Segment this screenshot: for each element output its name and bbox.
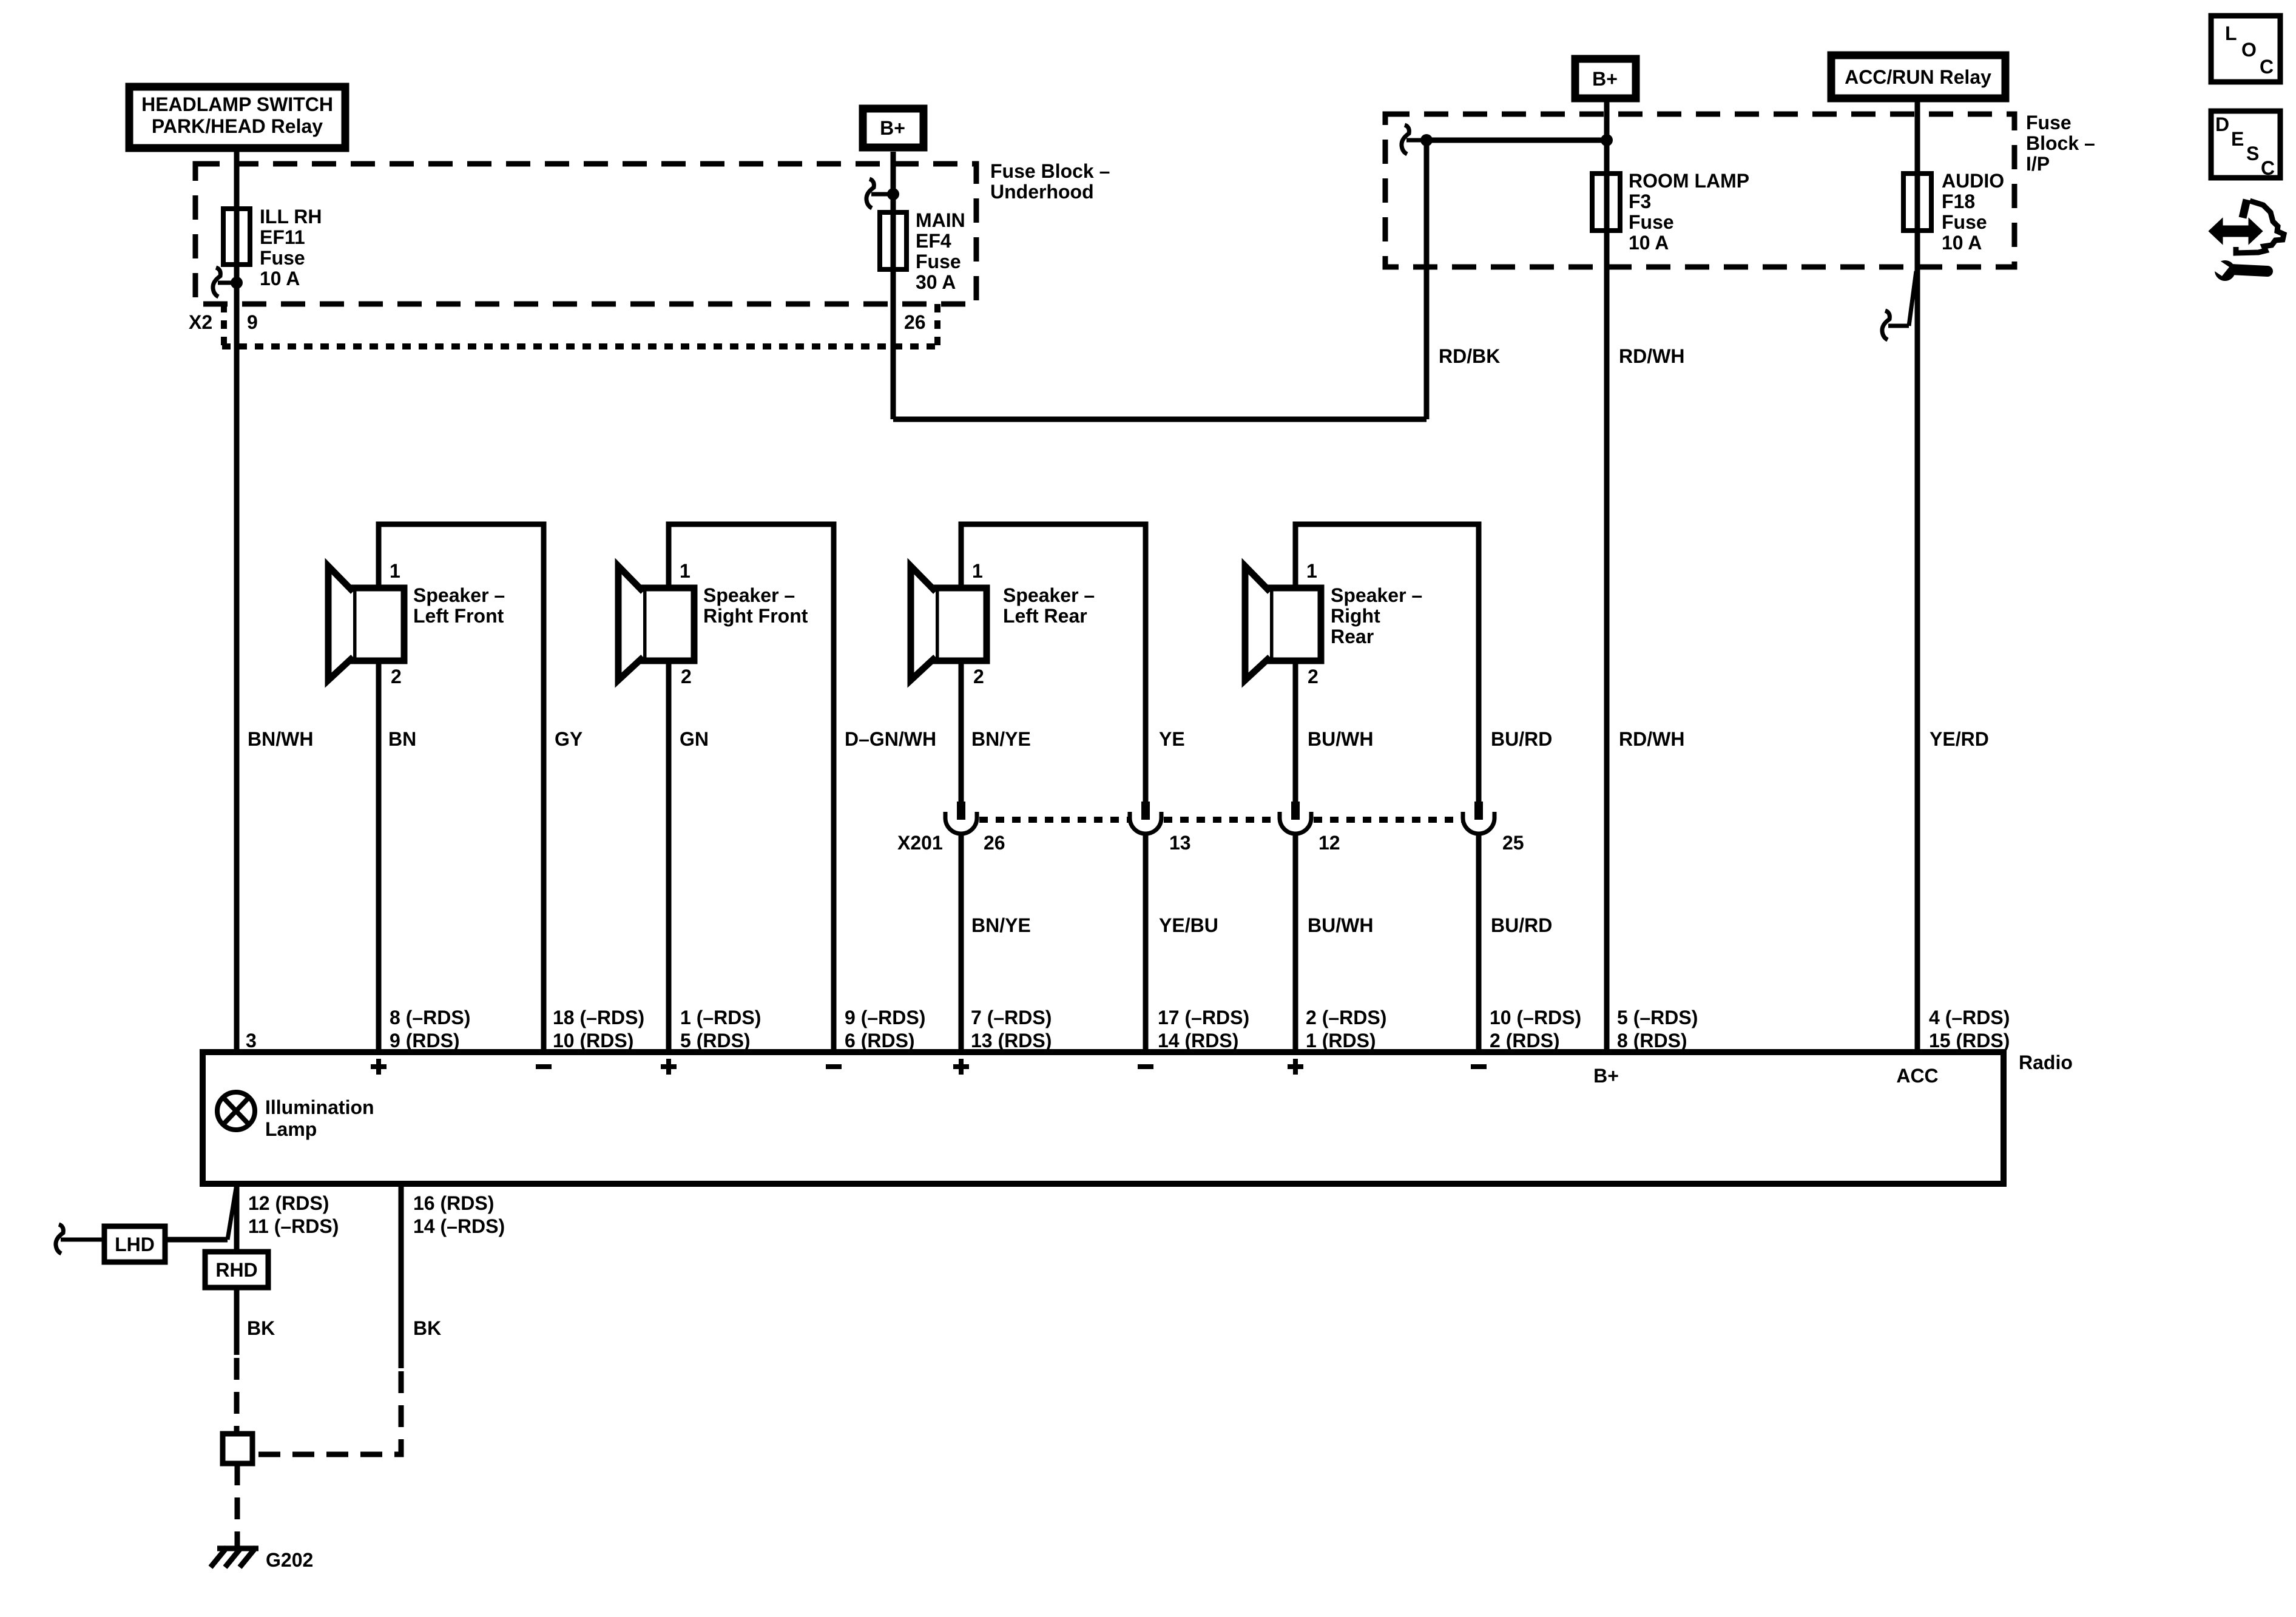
- svg-text:HEADLAMP SWITCH: HEADLAMP SWITCH: [141, 93, 333, 115]
- svg-text:BK: BK: [247, 1317, 275, 1339]
- svg-text:BU/RD: BU/RD: [1491, 728, 1552, 750]
- radio pin 1/5 label: [680, 1007, 761, 1052]
- svg-text:16 (RDS): 16 (RDS): [413, 1192, 494, 1214]
- svg-text:2 (–RDS): 2 (–RDS): [1306, 1007, 1386, 1028]
- svg-text:Lamp: Lamp: [265, 1118, 317, 1140]
- svg-text:B+: B+: [1593, 1065, 1619, 1087]
- wire from ACC/RUN Relay through F18 to radio ACC: [1915, 98, 1920, 1049]
- connector X201 dashed line: [979, 817, 1462, 823]
- junction dot below EF11: [231, 277, 243, 289]
- connector clip at EF4 input: [866, 179, 889, 208]
- wire BU/WH below X201: [1293, 836, 1298, 1049]
- svg-text:26: 26: [984, 832, 1005, 854]
- HEADLAMP SWITCH PARK/HEAD Relay box: [129, 87, 345, 148]
- svg-text:RD/WH: RD/WH: [1619, 728, 1684, 750]
- fuse F3 label: [1629, 170, 1749, 254]
- wire stub to ground: [235, 1537, 240, 1548]
- svg-text:30 A: 30 A: [916, 271, 956, 293]
- radio pin 9/6 label: [845, 1007, 925, 1052]
- svg-text:2: 2: [681, 666, 692, 687]
- B+ power box (middle): [863, 109, 923, 147]
- svg-text:8 (RDS): 8 (RDS): [1617, 1030, 1687, 1052]
- speaker Right Front loop wire: [669, 524, 834, 1049]
- svg-text:12: 12: [1319, 832, 1340, 854]
- radio pin 10/2 label: [1490, 1007, 1581, 1052]
- X201 pin 12 terminal: [1280, 802, 1311, 834]
- svg-text:9 (RDS): 9 (RDS): [390, 1030, 460, 1052]
- svg-text:BN: BN: [388, 728, 416, 750]
- svg-text:4 (–RDS): 4 (–RDS): [1929, 1007, 2010, 1028]
- connector X2 dotted line: [222, 343, 937, 349]
- svg-text:12 (RDS): 12 (RDS): [248, 1192, 329, 1214]
- svg-text:BK: BK: [413, 1317, 441, 1339]
- svg-text:RD/WH: RD/WH: [1619, 345, 1684, 367]
- svg-text:EF11: EF11: [260, 226, 305, 248]
- speaker Left Rear label: [1003, 584, 1095, 627]
- svg-text:GY: GY: [555, 728, 582, 750]
- svg-text:ACC/RUN Relay: ACC/RUN Relay: [1845, 66, 1991, 88]
- svg-text:BU/WH: BU/WH: [1308, 728, 1373, 750]
- svg-text:Speaker –: Speaker –: [703, 584, 795, 606]
- radio terminal + (LF): [371, 1059, 387, 1075]
- svg-text:17 (–RDS): 17 (–RDS): [1158, 1007, 1249, 1028]
- dashed wire below splice: [235, 1463, 240, 1541]
- svg-text:PARK/HEAD Relay: PARK/HEAD Relay: [152, 115, 323, 137]
- svg-text:ILL RH: ILL RH: [260, 206, 322, 228]
- connector X2 right stub: [934, 304, 940, 346]
- RHD box: [205, 1252, 268, 1288]
- radio terminal + (RR): [1288, 1059, 1303, 1075]
- connector clip below F18: [1882, 271, 1916, 340]
- svg-text:Fuse: Fuse: [1629, 211, 1674, 233]
- ACC/RUN Relay box: [1831, 55, 2005, 98]
- svg-text:1: 1: [680, 560, 690, 582]
- svg-text:Speaker –: Speaker –: [1331, 584, 1422, 606]
- X201 pin 13 terminal: [1130, 802, 1161, 834]
- svg-text:11 (–RDS): 11 (–RDS): [248, 1215, 339, 1237]
- wire inside I/P block: [1427, 138, 1607, 143]
- speaker Right Front label: [703, 584, 808, 627]
- svg-text:10 (–RDS): 10 (–RDS): [1490, 1007, 1581, 1028]
- connector clip at EF11 output: [213, 268, 235, 297]
- Fuse Block - Underhood label: [990, 160, 1110, 203]
- svg-text:2 (RDS): 2 (RDS): [1490, 1030, 1560, 1052]
- svg-text:14 (–RDS): 14 (–RDS): [413, 1215, 505, 1237]
- svg-text:Underhood: Underhood: [990, 181, 1094, 203]
- radio pin 17/14 label: [1158, 1007, 1249, 1052]
- svg-text:Radio: Radio: [2019, 1052, 2073, 1073]
- svg-text:YE: YE: [1159, 728, 1185, 750]
- wire from radio pin 16/14 down: [399, 1184, 404, 1368]
- svg-text:9 (–RDS): 9 (–RDS): [845, 1007, 925, 1028]
- svg-text:YE/BU: YE/BU: [1159, 914, 1218, 936]
- repair icon: double arrow, harness outline, wrench: [2209, 200, 2284, 281]
- illumination lamp label: [265, 1096, 374, 1140]
- svg-text:Left Rear: Left Rear: [1003, 605, 1087, 627]
- illumination lamp symbol: [217, 1092, 255, 1130]
- svg-text:B+: B+: [1592, 68, 1618, 90]
- svg-text:AUDIO: AUDIO: [1942, 170, 2004, 192]
- svg-text:18 (–RDS): 18 (–RDS): [553, 1007, 644, 1028]
- wire from B+ right through F3 to radio B+: [1604, 98, 1610, 1049]
- svg-text:B+: B+: [880, 117, 905, 139]
- svg-text:Fuse: Fuse: [1942, 211, 1987, 233]
- svg-text:14 (RDS): 14 (RDS): [1158, 1030, 1238, 1052]
- dashed BK wire (right): [252, 1371, 401, 1454]
- dashed BK wire to splice: [234, 1358, 240, 1434]
- speaker Left Front label: [413, 584, 505, 627]
- radio pin 4/15 label: [1929, 1007, 2010, 1052]
- speaker Right Rear loop wire: [1295, 524, 1479, 802]
- wire from B+ through fuse EF4 down: [891, 152, 896, 419]
- svg-text:10 A: 10 A: [1942, 232, 1982, 254]
- svg-text:BU/RD: BU/RD: [1491, 914, 1552, 936]
- wire from radio pin 12/11 down: [234, 1184, 240, 1252]
- svg-text:EF4: EF4: [916, 230, 951, 252]
- ground symbol G202: [211, 1547, 258, 1567]
- fuse EF11 label: [260, 206, 322, 289]
- LHD box: [104, 1226, 165, 1262]
- speaker Left Front symbol: [328, 566, 404, 680]
- svg-text:1: 1: [972, 560, 983, 582]
- wire from HEADLAMP SWITCH to radio pin 3: [234, 148, 240, 1049]
- svg-text:Illumination: Illumination: [265, 1096, 374, 1118]
- svg-text:F18: F18: [1942, 191, 1975, 212]
- splice square: [223, 1434, 252, 1463]
- svg-text:BN/WH: BN/WH: [248, 728, 313, 750]
- wire BN/YE below X201: [959, 836, 964, 1049]
- svg-text:RHD: RHD: [215, 1259, 257, 1281]
- radio pin 5/8 label: [1617, 1007, 1698, 1052]
- radio pin 16/14 label: [413, 1192, 505, 1237]
- radio pin 7/13 label: [971, 1007, 1052, 1052]
- wire BK below RHD: [234, 1288, 240, 1355]
- fuse F18 label: [1942, 170, 2004, 254]
- connector clip inside I/P block: [1402, 125, 1422, 154]
- radio pin 8/9 label: [390, 1007, 470, 1052]
- DESC legend box: [2211, 111, 2280, 179]
- radio terminal - (RF): [826, 1064, 842, 1069]
- svg-text:Fuse: Fuse: [2026, 112, 2071, 133]
- junction dot above EF4: [887, 188, 899, 200]
- junction dot at I/P feed left: [1420, 134, 1433, 146]
- B+ power box (right): [1575, 59, 1636, 98]
- svg-text:D: D: [2215, 113, 2229, 135]
- svg-text:Fuse: Fuse: [916, 251, 961, 272]
- speaker Left Rear loop wire: [961, 524, 1146, 802]
- svg-text:RD/BK: RD/BK: [1439, 345, 1500, 367]
- svg-text:25: 25: [1502, 832, 1524, 854]
- svg-text:1 (RDS): 1 (RDS): [1306, 1030, 1376, 1052]
- svg-text:15 (RDS): 15 (RDS): [1929, 1030, 2010, 1052]
- radio terminal - (RR): [1471, 1064, 1487, 1069]
- svg-text:YE/RD: YE/RD: [1930, 728, 1989, 750]
- radio pin 2/1 label: [1306, 1007, 1386, 1052]
- svg-text:Left Front: Left Front: [413, 605, 504, 627]
- X201 pin 25 terminal: [1463, 802, 1494, 834]
- wire YE/BU below X201: [1143, 836, 1149, 1049]
- svg-text:D–GN/WH: D–GN/WH: [845, 728, 936, 750]
- svg-text:8 (–RDS): 8 (–RDS): [390, 1007, 470, 1028]
- speaker Left Front loop wire: [379, 524, 544, 1049]
- svg-text:Fuse: Fuse: [260, 247, 305, 269]
- svg-text:Fuse Block –: Fuse Block –: [990, 160, 1110, 182]
- wire horizontal from EF4 to RD/BK riser: [893, 417, 1427, 422]
- Fuse Block - I/P label: [2026, 112, 2095, 175]
- X201 pin 26 terminal: [945, 802, 977, 834]
- speaker Left Rear symbol: [911, 566, 987, 680]
- svg-text:2: 2: [973, 666, 984, 687]
- LHD branch horizontal wire: [165, 1237, 228, 1243]
- svg-text:26: 26: [904, 311, 926, 333]
- svg-text:C: C: [2261, 157, 2275, 179]
- svg-text:Speaker –: Speaker –: [1003, 584, 1095, 606]
- Fuse Block - I/P dashed box: [1385, 114, 2014, 267]
- svg-text:10 A: 10 A: [260, 268, 300, 289]
- svg-text:Right: Right: [1331, 605, 1380, 627]
- svg-text:BN/YE: BN/YE: [971, 914, 1031, 936]
- svg-text:E: E: [2231, 128, 2244, 150]
- svg-text:5 (–RDS): 5 (–RDS): [1617, 1007, 1698, 1028]
- LHD branch diagonal wire: [228, 1188, 236, 1240]
- svg-text:L: L: [2225, 22, 2237, 44]
- svg-text:Speaker –: Speaker –: [413, 584, 505, 606]
- svg-text:G202: G202: [266, 1549, 313, 1571]
- svg-text:3: 3: [246, 1030, 257, 1052]
- wire RD/BK riser: [1424, 140, 1430, 419]
- svg-text:9: 9: [247, 311, 258, 333]
- svg-text:13 (RDS): 13 (RDS): [971, 1030, 1052, 1052]
- svg-text:7 (–RDS): 7 (–RDS): [971, 1007, 1052, 1028]
- fuse F18 AUDIO: [1903, 174, 1931, 231]
- svg-text:Block –: Block –: [2026, 132, 2095, 154]
- LOC legend box: [2211, 16, 2280, 82]
- svg-text:1: 1: [1306, 560, 1317, 582]
- speaker Right Rear label: [1331, 584, 1422, 647]
- fuse EF11 ILL RH: [223, 209, 250, 265]
- svg-text:ACC: ACC: [1896, 1065, 1938, 1087]
- svg-text:S: S: [2246, 143, 2259, 164]
- wire BU/RD below X201: [1476, 836, 1482, 1049]
- connector clip at LHD end: [56, 1224, 104, 1254]
- radio pin 18/10 label: [553, 1007, 644, 1052]
- svg-text:1: 1: [390, 560, 400, 582]
- svg-text:F3: F3: [1629, 191, 1651, 212]
- svg-text:X2: X2: [189, 311, 212, 333]
- svg-text:BN/YE: BN/YE: [971, 728, 1031, 750]
- radio terminal - (LF): [536, 1064, 552, 1069]
- speaker Right Rear symbol: [1245, 566, 1321, 680]
- svg-text:5 (RDS): 5 (RDS): [680, 1030, 751, 1052]
- svg-text:2: 2: [1308, 666, 1319, 687]
- svg-text:Rear: Rear: [1331, 626, 1374, 647]
- svg-text:Right Front: Right Front: [703, 605, 808, 627]
- svg-text:10 A: 10 A: [1629, 232, 1669, 254]
- svg-text:O: O: [2241, 39, 2257, 61]
- svg-text:I/P: I/P: [2026, 153, 2050, 175]
- connector X2 left stub: [221, 304, 227, 346]
- radio terminal - (LR): [1138, 1064, 1153, 1069]
- svg-text:X201: X201: [897, 832, 943, 854]
- radio terminal + (LR): [953, 1059, 969, 1075]
- junction dot at I/P feed right: [1601, 134, 1613, 146]
- Fuse Block - Underhood dashed box: [195, 164, 976, 304]
- fuse EF4 label: [916, 209, 965, 293]
- svg-text:ROOM LAMP: ROOM LAMP: [1629, 170, 1749, 192]
- svg-text:13: 13: [1169, 832, 1191, 854]
- svg-text:2: 2: [391, 666, 402, 687]
- svg-text:LHD: LHD: [115, 1234, 155, 1255]
- radio terminal + (RF): [661, 1059, 677, 1075]
- fuse F3 ROOM LAMP: [1592, 174, 1620, 231]
- svg-text:MAIN: MAIN: [916, 209, 965, 231]
- svg-text:GN: GN: [680, 728, 709, 750]
- Radio box: [203, 1052, 2004, 1184]
- svg-text:6 (RDS): 6 (RDS): [845, 1030, 915, 1052]
- speaker Right Front symbol: [618, 566, 694, 680]
- svg-text:BU/WH: BU/WH: [1308, 914, 1373, 936]
- fuse EF4 MAIN: [880, 212, 907, 269]
- svg-text:C: C: [2260, 56, 2274, 78]
- svg-text:10 (RDS): 10 (RDS): [553, 1030, 633, 1052]
- svg-text:1 (–RDS): 1 (–RDS): [680, 1007, 761, 1028]
- radio pin 12/11 label: [248, 1192, 339, 1237]
